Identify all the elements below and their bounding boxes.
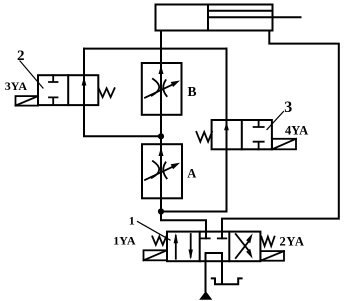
leader line for label 1 xyxy=(138,222,171,241)
leader line for label 3 xyxy=(267,112,284,130)
svg-text:2YA: 2YA xyxy=(280,235,305,249)
svg-text:1YA: 1YA xyxy=(113,233,136,247)
throttle valve B venturi arcs xyxy=(152,79,167,96)
valve 1 centre P-T bridge xyxy=(206,253,223,291)
throttle valve A venturi arcs xyxy=(152,161,167,178)
valve 3 spring xyxy=(196,132,212,142)
wire: through valve2 down to node A1 xyxy=(84,49,161,137)
cylinder body xyxy=(156,5,273,31)
solenoid 2YA xyxy=(260,251,284,261)
solenoid 3YA xyxy=(16,96,39,106)
tank xyxy=(212,278,242,284)
svg-text:3YA: 3YA xyxy=(5,79,28,93)
valve 1 left position down arrow xyxy=(189,234,193,260)
solenoid 4YA xyxy=(272,139,296,150)
svg-text:B: B xyxy=(188,84,197,99)
pump pressure source xyxy=(199,291,212,300)
wire: through valve3 down to node A2 xyxy=(161,49,227,212)
svg-text:A: A xyxy=(187,167,196,181)
valve 2 spring xyxy=(99,88,115,97)
wire: rod-end port right side down to valve1 B-port xyxy=(222,31,339,239)
svg-text:1: 1 xyxy=(129,214,135,228)
valve 3 right position blocked ports xyxy=(254,120,264,149)
valve 1 right spring xyxy=(261,237,274,246)
solenoid 1YA xyxy=(144,250,168,260)
node dot between B and A xyxy=(158,133,164,139)
throttle valve B box xyxy=(142,63,182,115)
valve 3 body xyxy=(212,120,272,149)
throttle valve A box xyxy=(142,144,182,198)
cylinder piston xyxy=(207,5,209,31)
node dot below A xyxy=(158,208,164,214)
throttle valve B flow arrow xyxy=(159,65,164,74)
cylinder rod lower line xyxy=(208,16,301,18)
throttle valve A adjust arrow xyxy=(145,163,180,180)
wire: rodless-end port down through throttles to valve1 A-port xyxy=(161,31,206,239)
valve 1 left spring xyxy=(152,236,166,244)
valve 1 left position up arrow xyxy=(174,233,178,259)
valve 2 left position blocked ports xyxy=(49,75,58,105)
valve 3 left position flow arrow xyxy=(224,122,229,131)
wire: top bypass horizontal xyxy=(84,48,227,50)
valve 1 right position crossed arrow 2 xyxy=(236,234,253,259)
valve 1 centre blocked A-port xyxy=(201,237,210,239)
svg-text:3: 3 xyxy=(284,99,292,116)
valve 1 right position crossed arrow 1 xyxy=(236,233,253,258)
throttle valve B adjust arrow xyxy=(145,81,180,98)
cylinder rod upper line xyxy=(208,10,273,12)
svg-text:4YA: 4YA xyxy=(285,123,308,137)
leader line for label 2 xyxy=(20,61,43,88)
valve 2 right position flow arrow xyxy=(82,77,87,86)
valve 1 centre blocked B-port xyxy=(218,237,227,239)
throttle valve A flow arrow xyxy=(159,147,164,156)
svg-text:2: 2 xyxy=(17,48,25,64)
valve 1 body xyxy=(167,232,260,262)
valve 2 body xyxy=(38,75,98,105)
